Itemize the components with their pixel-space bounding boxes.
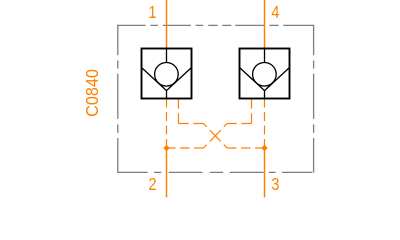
- svg-text:C0840: C0840: [82, 69, 102, 117]
- svg-text:2: 2: [148, 174, 156, 194]
- svg-text:1: 1: [148, 2, 156, 22]
- svg-text:3: 3: [271, 174, 279, 194]
- svg-text:4: 4: [271, 2, 279, 22]
